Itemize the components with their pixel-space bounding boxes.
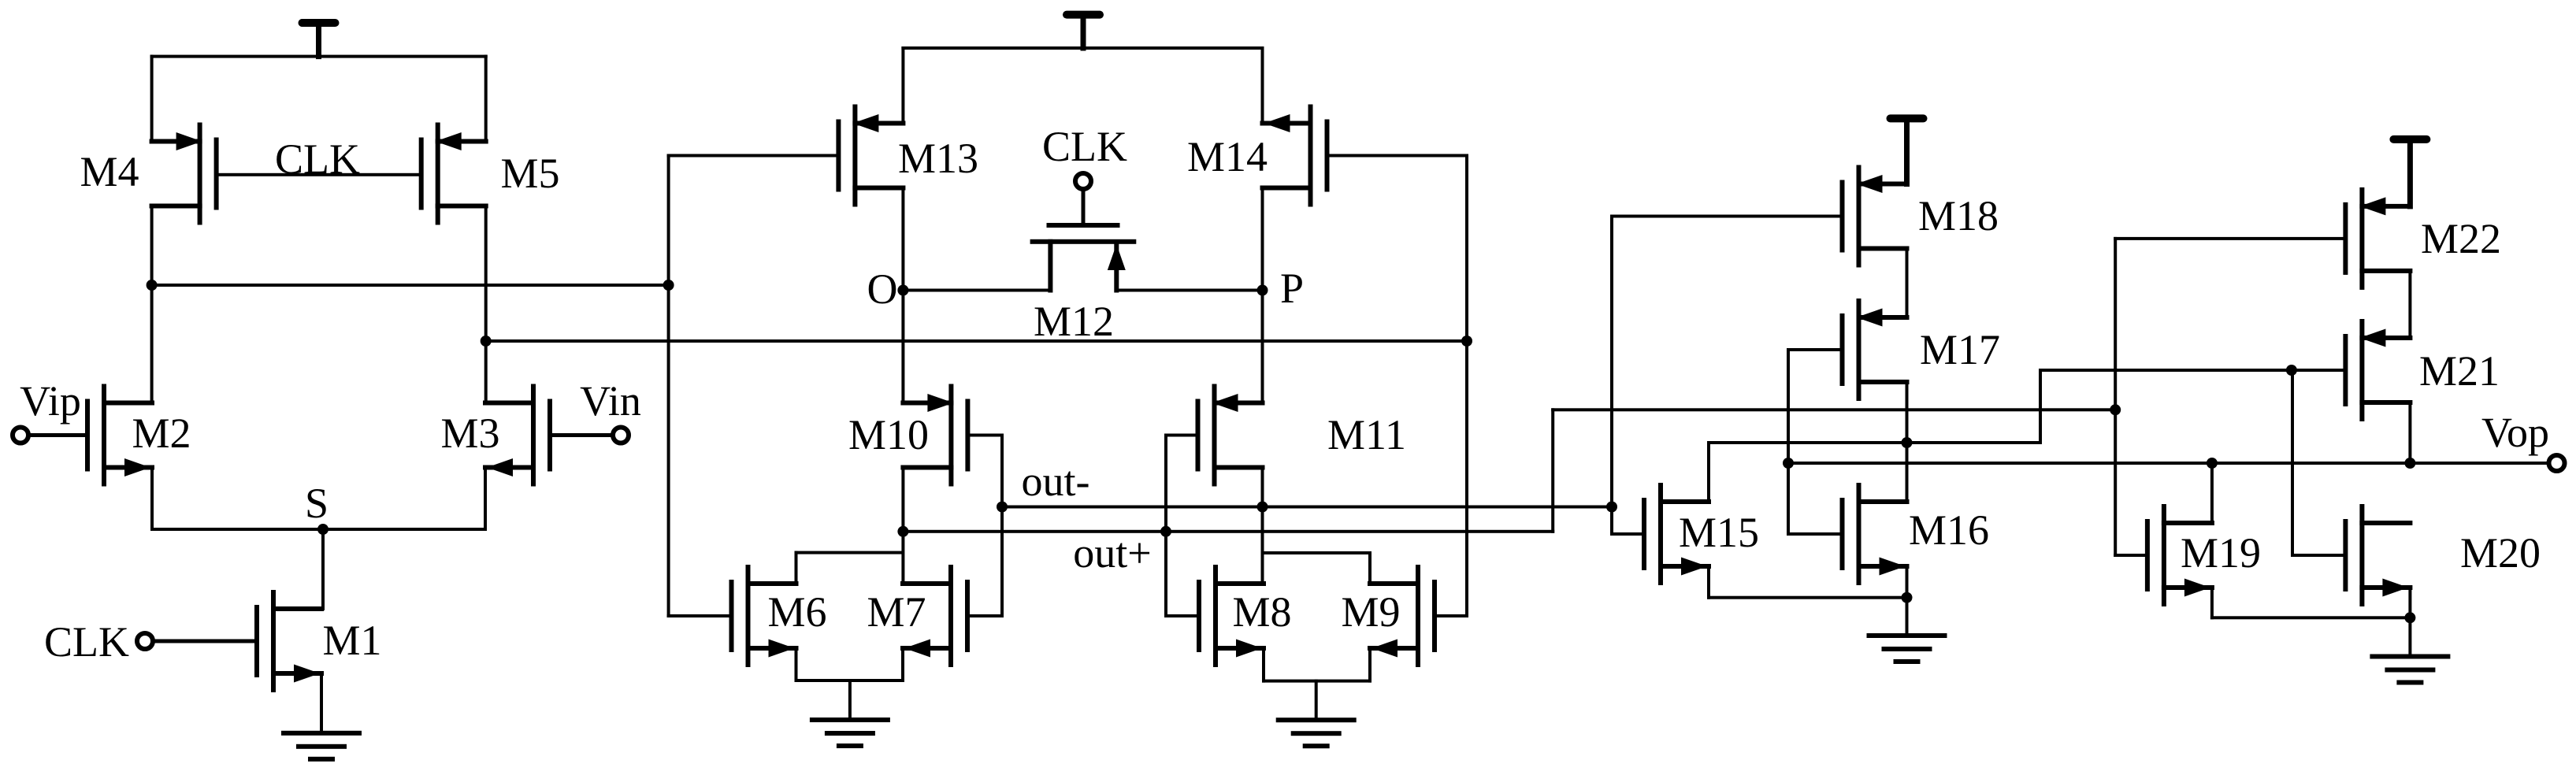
- label S: [305, 480, 328, 527]
- svg-text:M22: M22: [2421, 215, 2501, 262]
- node junction source rail / ground: [1902, 592, 1913, 603]
- node junction M20 source / ground: [2404, 612, 2415, 623]
- svg-text:S: S: [305, 480, 328, 527]
- svg-text:CLK: CLK: [44, 618, 129, 666]
- ground (M19/M20): [2370, 654, 2450, 685]
- label out-: [1022, 458, 1090, 505]
- transistor M4: [150, 123, 219, 225]
- wire: out+ line: [901, 530, 1554, 533]
- transistor M2: [85, 384, 154, 487]
- svg-text:M6: M6: [767, 588, 826, 636]
- wire: M16 source corner down: [1906, 565, 1909, 599]
- svg-text:Vip: Vip: [20, 377, 81, 425]
- node junction on left riser: [663, 280, 674, 291]
- wire: M20 source down to ground: [2408, 586, 2411, 658]
- node junction out- at M11 source: [1257, 502, 1268, 513]
- ground (M15/M16): [1867, 633, 1947, 664]
- svg-text:M8: M8: [1232, 588, 1291, 636]
- ground (M1): [281, 731, 362, 762]
- wire: rail down to M14 drain: [1261, 46, 1264, 125]
- wire: M18 gate lead: [1610, 215, 1844, 218]
- label M16: [1909, 506, 1989, 554]
- wire: M6 source corner down: [795, 647, 798, 682]
- wire: M17 gate lead: [1787, 348, 1844, 351]
- wire: M1 source down to ground: [320, 672, 323, 735]
- node junction out- at M18/M15 riser: [1606, 502, 1617, 513]
- svg-text:M5: M5: [500, 150, 559, 197]
- label Vip: [20, 377, 81, 425]
- transistor M8: [1197, 565, 1266, 667]
- transistor M5: [419, 123, 488, 225]
- svg-text:Vin: Vin: [580, 377, 641, 425]
- wire: M15 gate lead: [1610, 532, 1646, 536]
- svg-text:M16: M16: [1909, 506, 1989, 554]
- wire: M12 to node P: [1115, 289, 1264, 292]
- wire: M5 source down to M3 drain: [484, 205, 488, 405]
- node junction out+ / M22 gate: [2110, 404, 2121, 415]
- wire: CLK gate wire M4-M5: [215, 173, 423, 176]
- node O junction: [897, 285, 908, 296]
- node junction M21 gate: [2286, 365, 2297, 376]
- ground (M6/M7): [810, 718, 890, 748]
- wire: node O to M12: [901, 289, 1052, 292]
- wire: M18 source to M17 drain: [1906, 247, 1909, 320]
- label M15: [1679, 509, 1759, 556]
- wire: VDD top rail (middle): [901, 46, 1264, 50]
- wire: M19 drain riser to Vop line: [2210, 462, 2214, 525]
- transistor M10: [900, 384, 970, 487]
- wire: M11 source riser down to M8/M9 drains: [1261, 466, 1264, 586]
- wire: M8/M9 source rail: [1262, 680, 1372, 683]
- label M11: [1327, 411, 1406, 458]
- label M9: [1341, 588, 1400, 636]
- node junction rail right end: [1461, 336, 1472, 347]
- wire: M21 source down to Vop line: [2408, 401, 2411, 465]
- label O: [867, 265, 898, 313]
- node junction out- at M10 gate riser: [997, 502, 1008, 513]
- wire: M6/M7 ground stem: [848, 679, 852, 721]
- label M14: [1187, 133, 1268, 180]
- transistor M13: [836, 105, 905, 207]
- node junction Vop / M19 drain: [2207, 458, 2218, 469]
- label M7: [867, 588, 926, 636]
- transistor M21: [2343, 319, 2412, 421]
- wire: rail down to M4 drain: [150, 55, 154, 143]
- label out+: [1073, 529, 1151, 577]
- label M18: [1918, 192, 1999, 239]
- wire: node O down to M10 drain: [901, 289, 904, 405]
- label M13: [898, 135, 978, 182]
- wire: M19/M20 source rail: [2210, 616, 2412, 619]
- port CLK terminal (M12): [1075, 173, 1091, 189]
- svg-text:M13: M13: [898, 135, 978, 182]
- wire: VDD top rail (left): [150, 55, 488, 58]
- transistor M20: [2343, 504, 2412, 606]
- node S junction: [317, 524, 328, 535]
- power VDD symbol (middle): [1063, 11, 1104, 51]
- port CLK terminal (M1): [137, 633, 153, 649]
- wire: S rail: [150, 528, 487, 531]
- wire: rail down to M5 drain: [484, 55, 488, 143]
- label M12: [1034, 298, 1114, 345]
- wire: out- line: [1000, 506, 1613, 509]
- node junction on M4-M2 wire: [147, 280, 158, 291]
- port Vip terminal: [13, 428, 28, 443]
- wire: M21 gate lead: [2290, 369, 2348, 372]
- wire: M15 source corner down: [1707, 565, 1710, 599]
- label M20: [2460, 529, 2541, 577]
- wire: node P down to M11 drain: [1261, 289, 1264, 405]
- wire: M9 drain corner up: [1368, 551, 1372, 585]
- svg-text:M20: M20: [2460, 529, 2541, 577]
- node junction M17 source / M15 drain line: [1902, 437, 1913, 448]
- wire: M8/M9 drain rail: [1262, 551, 1372, 554]
- wire: line to M21 gate: [2039, 369, 2293, 372]
- wire: Vin to M3 gate: [548, 433, 615, 437]
- wire: M13 source down to node O: [901, 187, 904, 292]
- transistor M6: [729, 565, 799, 667]
- label M4: [80, 148, 139, 195]
- svg-text:M17: M17: [1920, 326, 2000, 373]
- svg-text:M10: M10: [848, 411, 929, 458]
- wire: M8 source corner down: [1262, 647, 1265, 683]
- svg-text:M4: M4: [80, 148, 139, 195]
- wire: M18/M15 gate riser: [1610, 215, 1613, 536]
- svg-text:M9: M9: [1341, 588, 1400, 636]
- power VDD symbol (M22): [2389, 135, 2430, 210]
- svg-text:M19: M19: [2181, 529, 2261, 577]
- svg-text:M14: M14: [1187, 133, 1268, 180]
- label M1: [322, 617, 381, 664]
- wire: M17 source down to M16 drain: [1906, 380, 1909, 503]
- svg-text:M2: M2: [132, 410, 191, 457]
- svg-text:P: P: [1280, 265, 1304, 312]
- node junction on M17 gate riser: [1783, 458, 1794, 469]
- wire: M19 source corner down: [2210, 586, 2214, 619]
- wire: M10/M7 gate riser: [1000, 434, 1004, 618]
- wire: M14 gate lead to right riser: [1326, 154, 1469, 158]
- label M3: [440, 410, 499, 457]
- wire: M19 gate lead: [2114, 554, 2149, 557]
- wire: M6 gate lead: [667, 614, 733, 617]
- svg-text:M18: M18: [1918, 192, 1999, 239]
- wire: out+ raised line to M22 gate riser: [1551, 408, 2117, 411]
- wire: rail down to M13 drain: [901, 46, 904, 125]
- svg-text:M1: M1: [322, 617, 381, 664]
- wire: M3 source down to S rail: [484, 466, 487, 532]
- label Vop: [2481, 409, 2549, 456]
- node junction out+ left end: [897, 526, 908, 537]
- svg-text:CLK: CLK: [1042, 123, 1127, 170]
- transistor M12: [1030, 187, 1137, 293]
- wire: M15 drain line right: [1707, 441, 2042, 444]
- transistor M11: [1196, 384, 1265, 487]
- label M8: [1232, 588, 1291, 636]
- wire: M7 gate lead: [966, 614, 1004, 617]
- svg-text:M15: M15: [1679, 509, 1759, 556]
- wire: M11/M8 gate riser: [1164, 434, 1167, 618]
- transistor M14: [1260, 105, 1330, 207]
- transistor M17: [1840, 299, 1910, 401]
- transistor M3: [483, 384, 552, 487]
- wire: M15 drain riser up: [1707, 441, 1710, 503]
- wire: M16 gate lead: [1787, 532, 1844, 536]
- wire: M11 gate lead: [1164, 434, 1200, 437]
- wire: M8/M9 ground stem: [1315, 680, 1318, 722]
- port Vop terminal: [2549, 455, 2565, 471]
- wire: M6 drain corner up: [795, 551, 798, 585]
- transistor M9: [1368, 565, 1437, 667]
- svg-text:M3: M3: [440, 410, 499, 457]
- label CLK (bottom left): [44, 618, 129, 666]
- label M10: [848, 411, 929, 458]
- transistor M19: [2145, 504, 2214, 606]
- power VDD symbol (left): [299, 19, 340, 59]
- label Vin: [580, 377, 641, 425]
- wire: node across to M13 gate riser: [150, 284, 670, 287]
- transistor M7: [900, 565, 970, 667]
- wire: M6/M7 source rail: [795, 679, 905, 682]
- svg-text:M12: M12: [1034, 298, 1114, 345]
- label M21: [2419, 347, 2500, 395]
- wire: M21/M20 gate riser: [2291, 369, 2294, 557]
- svg-text:M21: M21: [2419, 347, 2500, 395]
- wire: M17 gate line to Vop: [1787, 462, 2551, 465]
- svg-text:M11: M11: [1327, 411, 1406, 458]
- ground (M8/M9): [1276, 718, 1357, 748]
- wire: M22 source down to M21 drain: [2408, 269, 2411, 339]
- wire: M10 source riser down to M6/M7 drains: [901, 466, 904, 586]
- wire: M17/M16 gate riser: [1787, 348, 1790, 536]
- label M5: [500, 150, 559, 197]
- label M19: [2181, 529, 2261, 577]
- label M17: [1920, 326, 2000, 373]
- wire: step up to gate line: [2039, 369, 2042, 444]
- svg-text:CLK: CLK: [275, 135, 360, 183]
- svg-text:M7: M7: [867, 588, 926, 636]
- wire: M8 gate lead: [1164, 614, 1201, 617]
- wire: M20 gate lead: [2291, 554, 2347, 557]
- transistor M15: [1642, 483, 1711, 585]
- node junction out+ at M11 gate riser: [1160, 526, 1171, 537]
- node junction on M5-M3 wire: [481, 336, 492, 347]
- node P junction: [1257, 285, 1268, 296]
- wire: M7 source corner down: [901, 647, 904, 682]
- label M2: [132, 410, 191, 457]
- wire: M22/M19 gate riser: [2114, 237, 2117, 557]
- label P: [1280, 265, 1304, 312]
- wire: M9 source corner down: [1368, 647, 1372, 683]
- wire: M6/M7 drain rail: [795, 551, 905, 554]
- wire: M22 gate lead: [2114, 237, 2347, 240]
- wire: M10 gate lead: [966, 434, 1004, 437]
- wire: M14 source down to node P: [1261, 187, 1264, 292]
- svg-text:Vop: Vop: [2481, 409, 2549, 456]
- wire: M13 gate lead to left riser: [667, 154, 841, 158]
- wire: CLK to M1 gate: [151, 640, 259, 643]
- label CLK (middle): [1042, 123, 1127, 170]
- transistor M16: [1840, 483, 1910, 585]
- transistor M1: [254, 590, 324, 692]
- transistor M18: [1840, 165, 1910, 268]
- svg-text:out-: out-: [1022, 458, 1090, 505]
- node junction Vop / M21-M20: [2404, 458, 2415, 469]
- wire: M2 source down to S rail: [150, 466, 154, 532]
- power VDD symbol (M18): [1887, 114, 1928, 187]
- svg-text:O: O: [867, 265, 898, 313]
- transistor M22: [2343, 187, 2412, 290]
- wire: right riser (M14/M9 gates): [1465, 154, 1468, 618]
- wire: M15/M16 ground stem: [1906, 596, 1909, 637]
- label M6: [767, 588, 826, 636]
- wire: left riser (M13/M6 gates): [667, 154, 670, 618]
- svg-text:out+: out+: [1073, 529, 1151, 577]
- wire: Vip to M2 gate: [27, 433, 90, 437]
- wire: long rail to M14 gate riser: [484, 339, 1468, 343]
- wire: out+ riser step: [1551, 408, 1554, 533]
- port Vin terminal: [613, 428, 629, 443]
- wire: M15/M16 source rail: [1707, 596, 1909, 599]
- wire: M4 source down to M2 drain: [150, 205, 154, 405]
- wire: M9 gate lead: [1433, 614, 1468, 617]
- wire: S down to M1 drain: [321, 528, 325, 610]
- label M22: [2421, 215, 2501, 262]
- label CLK (top left): [275, 135, 360, 183]
